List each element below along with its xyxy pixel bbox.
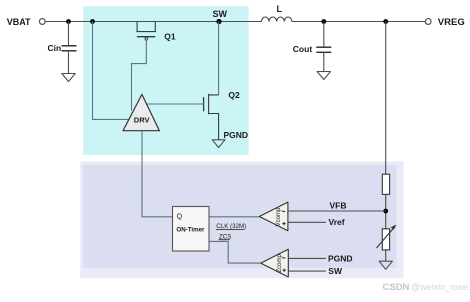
wire Cin to ground (68, 51, 70, 74)
node VFB junction (383, 209, 388, 214)
svg-text:@weixin_rose: @weixin_rose (411, 282, 468, 292)
svg-text:Cin: Cin (48, 43, 62, 53)
capacitor Cout (316, 47, 331, 52)
resistor R2 (adjustable) (377, 225, 397, 250)
wire DRV input from ON-Timer (142, 131, 173, 217)
transistor Q2 (204, 94, 219, 140)
svg-text:DRV: DRV (134, 115, 150, 124)
wire Vcomp output to ON-Timer (209, 216, 259, 218)
comparator Vcomp (259, 202, 288, 231)
wire R2 to ground (385, 250, 387, 261)
svg-text:VFB: VFB (330, 200, 347, 210)
wire ZCS from ON-Timer to Zcomp (209, 241, 261, 263)
svg-text:Q: Q (177, 213, 183, 220)
wire DRV supply (93, 22, 130, 120)
svg-text:ON-Timer: ON-Timer (176, 227, 205, 234)
wire feedback branch (385, 22, 387, 175)
wire SW to Q2 drain (218, 22, 220, 95)
svg-text:CSDN: CSDN (383, 282, 410, 293)
label CLK (32M) (216, 223, 246, 230)
svg-text:L: L (277, 4, 283, 14)
node DRV supply junction (90, 19, 95, 24)
comparator Zcomp (261, 249, 289, 277)
wire SW stub (288, 270, 326, 272)
op-amp U1 DRV (123, 94, 159, 130)
svg-text:Q2: Q2 (228, 90, 240, 100)
ground (Cin) (62, 74, 75, 82)
svg-text:PGND: PGND (224, 130, 249, 140)
watermark CSDN (383, 282, 468, 293)
svg-text:VBAT: VBAT (7, 17, 31, 27)
wire DRV to Q2 gate (147, 103, 203, 105)
node SW (216, 19, 221, 24)
svg-text:Vref: Vref (329, 217, 345, 227)
inductor L (262, 17, 292, 22)
wire PGND stub (288, 257, 326, 259)
wire Cout branch (323, 22, 325, 47)
wire R1 to R2 (385, 194, 387, 228)
node Cout junction (321, 19, 326, 24)
power stage highlight box (83, 6, 248, 155)
wire Cin branch (68, 22, 70, 46)
wire VFB (288, 210, 386, 212)
svg-text:Zcomp: Zcomp (277, 253, 283, 272)
ground (Q2 source PGND) (212, 140, 225, 148)
svg-text:Q1: Q1 (164, 32, 176, 42)
svg-text:SW: SW (328, 266, 343, 276)
ground (feedback divider) (379, 261, 392, 269)
terminal VREG (425, 19, 431, 25)
svg-text:Vcomp: Vcomp (276, 207, 282, 226)
ground (Cout) (317, 72, 330, 80)
control block highlight box (80, 162, 404, 279)
capacitor Cin (62, 46, 77, 51)
svg-text:SW: SW (213, 9, 228, 19)
node feedback junction (383, 19, 388, 24)
wire Vref stub (288, 221, 326, 223)
svg-text:Cout: Cout (293, 44, 313, 54)
label ZCS (219, 233, 232, 240)
svg-text:VREG: VREG (438, 17, 465, 28)
node Cin junction (66, 19, 71, 24)
svg-text:PGND: PGND (328, 253, 353, 263)
wire Cout to ground (323, 53, 325, 72)
resistor R1 (feedback top) (382, 174, 389, 194)
wire Q1 gate to DRV (132, 40, 147, 110)
ON-Timer block (173, 207, 210, 252)
terminal VBAT (39, 19, 45, 25)
transistor Q1 (136, 22, 156, 41)
wire VBAT rail (45, 21, 261, 23)
wire L to VREG (292, 21, 425, 23)
